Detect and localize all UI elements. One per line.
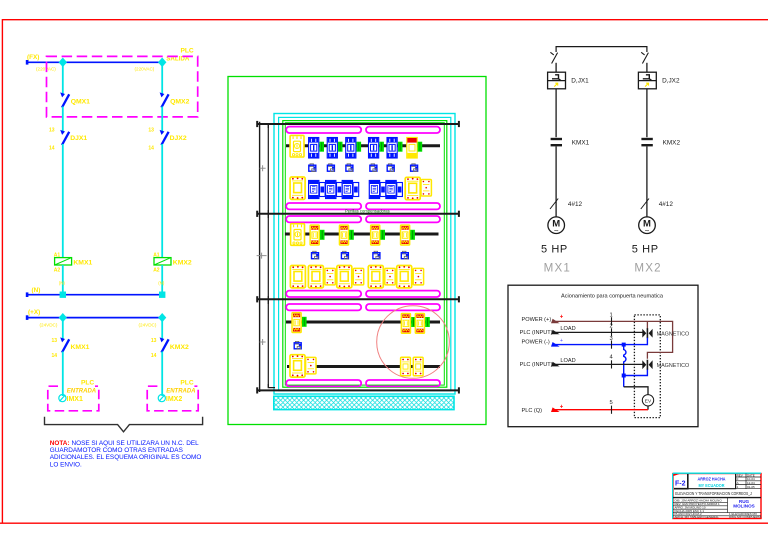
data row separators bbox=[673, 498, 761, 516]
svg-text:(FX): (FX) bbox=[27, 54, 39, 61]
starter module n4 bbox=[380, 183, 386, 197]
svg-text:KMX1: KMX1 bbox=[71, 344, 90, 351]
svg-text:(N): (N) bbox=[32, 287, 41, 294]
wire blue drop with hops bbox=[624, 345, 626, 376]
cable trench hatched bbox=[274, 396, 454, 409]
end clamp bbox=[379, 142, 384, 152]
panel enclosure cyan outer bbox=[274, 114, 455, 395]
starter module w4 bbox=[369, 181, 379, 199]
bus +X end tick bbox=[26, 315, 29, 320]
disconnect blade MX1 bbox=[550, 52, 557, 63]
breaker contact QMX1 bbox=[62, 94, 69, 107]
svg-text:KMX1: KMX1 bbox=[73, 260, 92, 267]
svg-text:(24VDC): (24VDC) bbox=[139, 322, 157, 327]
title block frame bbox=[673, 474, 761, 519]
starter module w2 bbox=[326, 181, 336, 199]
solenoid MAGNETICO 1 bbox=[642, 328, 652, 338]
panel backplate green inner bbox=[285, 123, 444, 385]
node diamond +X-1 bbox=[59, 313, 67, 322]
wire duct s2 bottom-left bbox=[286, 291, 361, 297]
svg-text:MY ECUADOR: MY ECUADOR bbox=[699, 483, 726, 488]
title block corner flag bbox=[674, 474, 680, 476]
svg-text:14: 14 bbox=[52, 353, 58, 359]
NO contact KMX1 bbox=[62, 339, 69, 352]
aux contact block a1 bbox=[309, 164, 316, 172]
wire bus +X 24VDC bbox=[27, 317, 164, 319]
svg-text:PLC: PLC bbox=[181, 48, 194, 55]
svg-text:PLC (INPUT): PLC (INPUT) bbox=[520, 330, 553, 336]
wire column2 mid bbox=[161, 107, 163, 133]
svg-text:ENTRADA: ENTRADA bbox=[166, 389, 195, 395]
aux contact s3 bbox=[294, 341, 301, 349]
panel backplate green outer bbox=[283, 121, 447, 388]
svg-text:~: ~ bbox=[645, 227, 650, 236]
DIN rail 3 bbox=[286, 321, 440, 324]
aux contact s2 a3 bbox=[373, 251, 380, 259]
aux module s2 m1 bbox=[325, 268, 335, 285]
svg-text:DWG MX COMPUERTA: DWG MX COMPUERTA bbox=[729, 515, 761, 519]
power supply s1 right bbox=[421, 180, 431, 197]
end clamp bbox=[338, 142, 343, 152]
svg-text:NOTA:: NOTA: bbox=[50, 440, 70, 447]
svg-text:QMX1: QMX1 bbox=[71, 99, 90, 106]
starter module n3 bbox=[353, 183, 359, 197]
terminal tick 5 bbox=[611, 406, 613, 414]
frame strut 2 bbox=[257, 213, 460, 215]
svg-text:GUARDAMOTOR COMO OTRAS ENTRADA: GUARDAMOTOR COMO OTRAS ENTRADAS bbox=[50, 447, 183, 454]
revision mini table bbox=[736, 474, 761, 489]
aux contact s2 a1 bbox=[312, 251, 319, 259]
terminal tick 2 bbox=[611, 328, 613, 336]
wire KMX1 to motor bbox=[555, 147, 557, 217]
svg-text:IMX1: IMX1 bbox=[67, 396, 83, 403]
end clamp bbox=[302, 317, 307, 327]
svg-text:QMX2: QMX2 bbox=[170, 99, 189, 106]
svg-text:DJX1: DJX1 bbox=[70, 135, 87, 142]
starter module n2 bbox=[337, 183, 343, 197]
svg-text:(24VDC): (24VDC) bbox=[40, 322, 58, 327]
svg-text:13: 13 bbox=[52, 338, 58, 344]
end clamp bbox=[425, 317, 430, 327]
overload relay s1 right bbox=[405, 177, 420, 199]
aux contact s2 a2 bbox=[341, 251, 348, 259]
contactor KMX1 power bbox=[551, 139, 562, 145]
frame strut 3 bbox=[257, 298, 460, 300]
data rows right bbox=[729, 512, 761, 519]
wire bus N bbox=[27, 294, 164, 296]
coil KMX1 bbox=[55, 258, 72, 265]
starter module n1 bbox=[320, 183, 326, 197]
junction POWER (-) bbox=[622, 343, 626, 347]
end clamp bbox=[319, 142, 324, 152]
contactor KM3 bbox=[370, 225, 380, 245]
wire duct s3 bottom-right bbox=[366, 380, 440, 386]
svg-text:01-05: 01-05 bbox=[747, 485, 755, 489]
wire duct s1 bottom-right bbox=[366, 203, 440, 209]
svg-text:LOAD: LOAD bbox=[560, 326, 575, 332]
starter module w1 bbox=[309, 181, 319, 199]
terminal tick 3 bbox=[611, 341, 613, 349]
svg-text:1: 1 bbox=[610, 312, 613, 318]
wire duct s1 bottom-left bbox=[286, 203, 361, 209]
disconnect blade MX2 bbox=[641, 52, 648, 63]
breaker DJX2 bbox=[638, 72, 656, 89]
aux module s2 m3 bbox=[385, 268, 395, 285]
overload relay s2 b3 bbox=[337, 266, 352, 288]
wire POWER (-) blue bbox=[553, 338, 648, 345]
contactor s3 r1 bbox=[401, 313, 411, 333]
svg-text:POWER (+): POWER (+) bbox=[522, 317, 552, 323]
aux contact block a6 bbox=[411, 164, 418, 172]
svg-text:A2: A2 bbox=[153, 267, 160, 273]
end clamp bbox=[410, 230, 415, 240]
dimension mark 3 bbox=[260, 339, 266, 345]
logo cell border bbox=[674, 474, 688, 489]
overload relay s2 b4 bbox=[368, 266, 383, 288]
wire column1 long bbox=[62, 144, 64, 258]
wire black to valve EV bbox=[624, 387, 648, 395]
svg-text:IMX2: IMX2 bbox=[166, 396, 182, 403]
svg-text:KMX1: KMX1 bbox=[572, 139, 590, 146]
svg-text:4#12: 4#12 bbox=[659, 201, 674, 208]
svg-text:14: 14 bbox=[148, 146, 154, 152]
DIN rail 1 bbox=[286, 144, 440, 147]
wire duct s3 top-left bbox=[286, 304, 361, 310]
aux contact block a2 bbox=[327, 164, 334, 172]
wire DJX2 to KMX2 bbox=[646, 89, 648, 137]
svg-text:5: 5 bbox=[610, 400, 613, 406]
aux contact block a4 bbox=[370, 164, 377, 172]
svg-text:MAGNETICO: MAGNETICO bbox=[657, 363, 690, 369]
end clamp bbox=[411, 317, 416, 327]
svg-text:13: 13 bbox=[49, 128, 55, 134]
terminal tick 4 bbox=[611, 360, 613, 368]
breaker contact QMX2 bbox=[161, 94, 168, 107]
svg-text:14: 14 bbox=[49, 146, 55, 152]
pneumatic diagram frame bbox=[508, 285, 698, 427]
supply module yellow s1 bbox=[407, 138, 417, 159]
motor M MX2 bbox=[639, 217, 656, 236]
contactor KM1 bbox=[310, 225, 320, 245]
PLC output dashed enclosure bbox=[47, 56, 198, 117]
cable mark MX2 bbox=[641, 199, 649, 210]
svg-text:3: 3 bbox=[610, 336, 613, 342]
svg-text:Acionamiento para compuerta ne: Acionamiento para compuerta neumatica bbox=[561, 294, 664, 300]
wire to PLC input 2 bbox=[161, 352, 163, 397]
node junction diamond 2 bbox=[158, 58, 166, 68]
feeder bus top bbox=[556, 47, 647, 52]
contactor KM4 bbox=[400, 225, 410, 245]
svg-text:LO ENVIO.: LO ENVIO. bbox=[50, 461, 82, 468]
breaker DJX1 bbox=[548, 72, 566, 89]
project title band bbox=[673, 497, 761, 499]
svg-text:PLC: PLC bbox=[81, 379, 94, 386]
terminal block s3 r2 bbox=[413, 357, 423, 375]
svg-text:KMX2: KMX2 bbox=[170, 344, 189, 351]
overload relay s2 b1 bbox=[290, 266, 305, 288]
valve EV bbox=[642, 395, 653, 406]
svg-text:NOSE SI AQUI SE UTILIZARA UN N: NOSE SI AQUI SE UTILIZARA UN N.C. DEL bbox=[72, 440, 200, 447]
svg-text:D,JX2: D,JX2 bbox=[662, 77, 680, 84]
arrow PLC input b bbox=[551, 362, 560, 367]
svg-text:MAGNETICO: MAGNETICO bbox=[657, 332, 690, 338]
svg-text:LOAD: LOAD bbox=[560, 358, 575, 364]
svg-text:F-2: F-2 bbox=[675, 481, 686, 488]
wire coil2 to N bbox=[161, 265, 163, 295]
DIN rail 4 bbox=[287, 365, 440, 368]
bus N end tick bbox=[26, 292, 29, 297]
svg-text:+: + bbox=[560, 315, 564, 321]
bus FX end tick bbox=[26, 60, 29, 65]
aux contact DJX1 bbox=[62, 132, 69, 145]
wire blue to solenoid2 bbox=[624, 369, 648, 375]
wire POWER (+) brown bbox=[553, 321, 673, 358]
svg-text:KMX2: KMX2 bbox=[173, 260, 192, 267]
motor M MX1 bbox=[548, 217, 565, 236]
terminal tick 1 bbox=[611, 317, 613, 325]
svg-text:(N): (N) bbox=[158, 281, 165, 286]
svg-text:~: ~ bbox=[554, 227, 559, 236]
wire EV to PLC Q bbox=[647, 406, 649, 410]
PLC input2 dashed box bbox=[147, 386, 198, 411]
node junction diamond 1 bbox=[59, 58, 67, 68]
svg-text:MX1: MX1 bbox=[544, 261, 571, 274]
aux contact s2 a4 bbox=[401, 251, 408, 259]
aux contact DJX2 bbox=[161, 132, 168, 145]
starter module w3 bbox=[342, 181, 352, 199]
svg-text:Perillas compensadoras: Perillas compensadoras bbox=[345, 209, 390, 214]
relay block s3 bottom-left bbox=[290, 355, 305, 377]
group brace bbox=[45, 417, 203, 432]
inspection circle mark bbox=[377, 306, 450, 379]
wire duct s1 top-left bbox=[286, 127, 361, 133]
aux module s2 m4 bbox=[413, 268, 423, 285]
svg-text:(N): (N) bbox=[59, 281, 66, 286]
relay aux s3 bottom-left bbox=[306, 357, 316, 374]
breaker module QF2 bbox=[327, 138, 337, 159]
end clamp bbox=[418, 142, 423, 152]
wire duct s1 top-right bbox=[366, 127, 440, 133]
arrow PLC input a bbox=[551, 330, 560, 335]
terminal circle IMX1 bbox=[59, 395, 66, 402]
wire column2 long bbox=[161, 144, 163, 258]
wire PLC input b bbox=[553, 363, 643, 365]
main disconnect switch s1 bbox=[290, 135, 304, 157]
node diamond +X-2 bbox=[158, 313, 166, 322]
mounting frame left rail bbox=[259, 122, 261, 392]
wire duct s2 bottom-right bbox=[366, 291, 440, 297]
svg-text:DJX2: DJX2 bbox=[170, 135, 187, 142]
end clamp bbox=[380, 230, 385, 240]
company cell border bbox=[688, 474, 736, 489]
coil KMX2 bbox=[154, 258, 171, 265]
wire coil1 to N bbox=[62, 265, 64, 295]
end clamp bbox=[398, 142, 403, 152]
svg-text:PLC (INPUT): PLC (INPUT) bbox=[520, 362, 553, 368]
svg-text:4#12: 4#12 bbox=[568, 201, 583, 208]
PLC input1 dashed box bbox=[48, 386, 99, 411]
svg-text:ARROZ HACHA: ARROZ HACHA bbox=[698, 477, 727, 482]
wire to breaker DJX1 bbox=[555, 63, 557, 72]
end clamp bbox=[320, 230, 325, 240]
arrow PLC Q bbox=[551, 407, 560, 412]
svg-text:EV: EV bbox=[645, 398, 652, 404]
NO contact KMX2 bbox=[161, 339, 168, 352]
breaker module QF3 bbox=[346, 138, 356, 159]
wire DJX1 to KMX1 bbox=[555, 89, 557, 137]
wire duct s2 top-left bbox=[286, 216, 361, 222]
wire blue tail down bbox=[623, 378, 625, 387]
wire duct s3 bottom-left bbox=[286, 380, 361, 386]
wire to PLC input 1 bbox=[62, 352, 64, 397]
arrow POWER (+) bbox=[551, 319, 560, 324]
data rows left bbox=[675, 499, 723, 519]
wire duct s2 top-right bbox=[366, 216, 440, 222]
wire bus FX 220VAC bbox=[27, 61, 164, 63]
svg-text:MX2: MX2 bbox=[634, 261, 661, 274]
svg-text:KMX2: KMX2 bbox=[663, 139, 681, 146]
solenoid MAGNETICO 2 bbox=[642, 360, 652, 370]
wire +X col2 bbox=[161, 318, 163, 340]
contactor s3 r2 bbox=[415, 313, 425, 333]
arrow POWER (-) bbox=[551, 342, 560, 347]
breaker module QF5 bbox=[387, 138, 397, 159]
title block cyan top edge bbox=[673, 472, 761, 474]
svg-text:13: 13 bbox=[151, 338, 157, 344]
wire +X col1 bbox=[62, 318, 64, 340]
svg-text:ENTRADA: ENTRADA bbox=[67, 389, 96, 395]
svg-text:+: + bbox=[560, 338, 563, 344]
svg-text:POWER (-): POWER (-) bbox=[522, 340, 550, 346]
aux contact block a5 bbox=[387, 164, 394, 172]
dimension mark 2 bbox=[257, 253, 267, 259]
contactor s3 left bbox=[292, 312, 302, 332]
mounting frame inner left rail bbox=[268, 124, 275, 387]
wire column1 mid bbox=[62, 107, 64, 133]
aux contact block a3 bbox=[346, 164, 353, 172]
breaker module QF4 bbox=[369, 138, 379, 159]
end clamp bbox=[357, 142, 362, 152]
terminal block s3 r1 bbox=[401, 357, 411, 375]
svg-text:PLC: PLC bbox=[180, 379, 193, 386]
svg-text:2: 2 bbox=[610, 324, 613, 330]
panel enclosure cyan inner bbox=[279, 117, 451, 390]
svg-text:5 HP: 5 HP bbox=[632, 243, 659, 255]
overload relay s2 b2 bbox=[308, 266, 323, 288]
node square N-2 bbox=[159, 292, 165, 298]
valve dotted enclosure bbox=[634, 315, 660, 418]
wire to breaker DJX2 bbox=[646, 63, 648, 72]
wire KMX2 to motor bbox=[646, 147, 648, 217]
svg-text:ELEVACION Y TRANSFORMACION COR: ELEVACION Y TRANSFORMACION CORREOS_J bbox=[675, 491, 752, 496]
starter module n5 bbox=[397, 183, 403, 197]
svg-text:5 HP: 5 HP bbox=[541, 243, 568, 255]
title block cyan left edge bbox=[672, 474, 674, 519]
aux module s2 m2 bbox=[353, 268, 363, 285]
frame strut 1 bbox=[257, 123, 460, 125]
wire PLC input a bbox=[553, 331, 643, 333]
svg-text:D,JX1: D,JX1 bbox=[571, 77, 589, 84]
junction blue lower bbox=[622, 374, 626, 378]
frame strut 4 bbox=[257, 389, 460, 391]
svg-text:(+X): (+X) bbox=[28, 309, 40, 316]
panel outer green border bbox=[228, 77, 486, 425]
svg-text:MOLINOS: MOLINOS bbox=[733, 504, 754, 509]
contactor KMX2 power bbox=[641, 139, 652, 145]
terminal circle IMX2 bbox=[158, 395, 165, 402]
end clamp bbox=[349, 230, 354, 240]
starter module w5 bbox=[386, 181, 396, 199]
wire column2 top bbox=[161, 62, 163, 95]
wire column1 top bbox=[62, 62, 64, 95]
wire duct s3 top-right bbox=[366, 304, 440, 310]
svg-text:14: 14 bbox=[151, 353, 157, 359]
svg-text:ADICIONALES. EL ESQUEMA ORIGIN: ADICIONALES. EL ESQUEMA ORIGINAL ES COMO bbox=[50, 454, 202, 461]
revision rows text bbox=[737, 473, 755, 489]
overload relay s1 left bbox=[290, 177, 305, 199]
wire PLC Q red bbox=[553, 409, 649, 411]
overload relay s2 b5 bbox=[397, 266, 412, 288]
dimension mark 1 bbox=[260, 165, 266, 171]
svg-text:(220VAC): (220VAC) bbox=[135, 67, 155, 72]
breaker module QF1 bbox=[309, 138, 319, 159]
main disconnect switch s2 bbox=[291, 224, 305, 246]
node square N-1 bbox=[60, 292, 66, 298]
svg-text:PLC (Q): PLC (Q) bbox=[522, 408, 543, 414]
svg-text:A2: A2 bbox=[54, 267, 61, 273]
contactor KM2 bbox=[339, 225, 349, 245]
svg-text:13: 13 bbox=[148, 128, 154, 134]
cable mark MX1 bbox=[550, 199, 558, 210]
DIN rail 2 bbox=[285, 233, 439, 236]
